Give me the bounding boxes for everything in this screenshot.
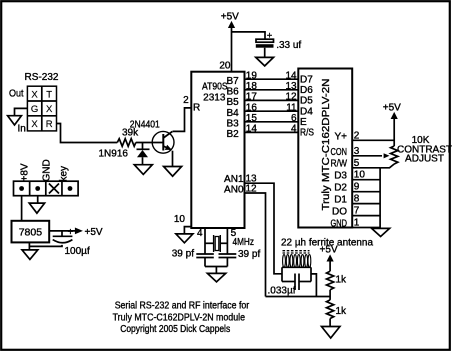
power +5V arrow bottom right [320, 245, 338, 272]
title text [113, 301, 250, 335]
ground (1k divider) [322, 327, 340, 339]
svg-text:1k: 1k [336, 306, 348, 317]
wire 7805 to ground [28, 242, 30, 250]
svg-text:12: 12 [246, 183, 258, 194]
wire pin4 down [204, 228, 206, 254]
ground (power connector) [29, 203, 44, 213]
pin numbers LCD right [354, 130, 366, 228]
ground (LCD bus) [372, 228, 390, 236]
svg-text:B4: B4 [226, 108, 239, 119]
pin numbers left bus [246, 70, 258, 134]
svg-text:1k: 1k [336, 275, 348, 286]
wire pin10 to ground [184, 227, 191, 234]
resistor R1 39k [117, 128, 139, 147]
svg-text:1N916: 1N916 [99, 148, 129, 159]
svg-text:R: R [193, 103, 200, 114]
wire tank right rail [310, 267, 312, 281]
ground (crystal caps) [207, 273, 225, 282]
wire R3 to ground [329, 319, 331, 327]
svg-text:19: 19 [246, 70, 258, 81]
svg-text:X: X [31, 89, 38, 100]
capacitor C1 .33 uf [256, 30, 302, 57]
connector J2 power [14, 159, 79, 195]
svg-text:18: 18 [246, 81, 258, 92]
svg-text:14: 14 [285, 70, 297, 81]
wire pin5 down [226, 228, 228, 254]
svg-text:GND: GND [331, 219, 348, 230]
svg-text:+: + [267, 30, 273, 41]
svg-text:ADJUST: ADJUST [405, 154, 444, 165]
svg-text:D5: D5 [300, 96, 313, 107]
svg-text:AT90S: AT90S [202, 82, 228, 93]
svg-text:key: key [59, 166, 70, 182]
svg-text:D6: D6 [300, 85, 313, 96]
capacitor C3 39pf right [219, 249, 261, 260]
svg-text:R/S: R/S [300, 128, 314, 139]
svg-text:B7: B7 [226, 76, 239, 87]
svg-text:39 pf: 39 pf [172, 248, 194, 259]
wire G to ground [15, 108, 28, 115]
svg-text:4MHz: 4MHz [233, 237, 255, 248]
svg-text:+8V: +8V [20, 163, 31, 181]
wire GND [352, 227, 380, 229]
svg-text:D7: D7 [300, 74, 313, 85]
svg-text:GND: GND [42, 159, 53, 181]
svg-text:D1: D1 [334, 195, 347, 206]
wire bottom rail [266, 296, 331, 298]
wire R out [57, 124, 118, 143]
svg-text:G: G [31, 104, 38, 115]
wire caps to ground [204, 258, 206, 267]
regulator U3 7805 [12, 221, 50, 243]
svg-text:B3: B3 [226, 119, 239, 130]
wire D0 [352, 215, 380, 217]
svg-text:.33 uf: .33 uf [276, 40, 301, 51]
svg-text:In: In [18, 124, 26, 135]
svg-text:AN0: AN0 [224, 185, 244, 196]
svg-text:4: 4 [291, 124, 297, 135]
svg-text:2313: 2313 [203, 92, 226, 103]
svg-text:11: 11 [286, 102, 297, 113]
wire +5V branch to cap [232, 32, 266, 39]
svg-text:Copyright 2005 Dick Cappels: Copyright 2005 Dick Cappels [120, 324, 230, 335]
wire emitter down [172, 151, 174, 167]
wire tank to bottom rail [311, 274, 316, 297]
wire tank left rail [281, 267, 283, 281]
ground (diode) [134, 165, 152, 175]
svg-text:R: R [46, 119, 53, 130]
wire collector to pin2 [173, 108, 192, 131]
wire Y+ to +5V [352, 139, 394, 141]
connector J1 RS-232 [9, 72, 59, 135]
svg-text:Serial RS-232 and RF interface: Serial RS-232 and RF interface for [115, 301, 250, 312]
svg-text:D4: D4 [300, 106, 313, 117]
crystal Y1 4MHz [205, 235, 254, 252]
resistor R3 1k [327, 300, 348, 319]
svg-text:13: 13 [285, 81, 297, 92]
wire AN0 [245, 193, 266, 297]
svg-text:17: 17 [246, 92, 258, 103]
svg-text:Truly MTC-C162DPLV-2N: Truly MTC-C162DPLV-2N [320, 79, 332, 211]
wire GND pin stub [37, 196, 39, 203]
svg-text:15: 15 [246, 113, 258, 124]
svg-text:B2: B2 [226, 129, 239, 140]
svg-text:+5V: +5V [320, 245, 338, 256]
ground (7805) [22, 250, 38, 260]
svg-text:DO: DO [332, 207, 347, 218]
wire +8V to 7805 [21, 196, 23, 221]
potentiometer VR1 10K [352, 135, 452, 168]
diode D1 1N916 [99, 148, 150, 164]
svg-text:E: E [300, 117, 307, 128]
IC U1 AT90S2313 [174, 61, 245, 239]
power +5V arrow right [383, 102, 401, 146]
svg-text:6: 6 [291, 113, 297, 124]
svg-text:D3: D3 [334, 171, 347, 182]
svg-text:14: 14 [246, 124, 258, 135]
bus wire B5-D5 [245, 99, 299, 101]
pin numbers right bus [285, 70, 297, 134]
IC U2 LCD module [298, 69, 352, 230]
svg-text:Out: Out [9, 89, 24, 100]
resistor R2 1k [327, 271, 348, 290]
bus wire B6-D6 [245, 89, 299, 91]
svg-text:2N4401: 2N4401 [130, 119, 160, 130]
ground (RS-232 In) [8, 116, 22, 125]
svg-text:+: + [68, 227, 74, 238]
transistor Q1 2N4401 [130, 119, 174, 153]
bus wire B4-D4 [245, 110, 299, 112]
svg-text:Truly MTC-C162DPLV-2N module: Truly MTC-C162DPLV-2N module [113, 312, 246, 323]
svg-text:100µf: 100µf [65, 246, 90, 257]
svg-text:Y+: Y+ [334, 132, 347, 143]
svg-text:20: 20 [219, 61, 231, 72]
wire gnd bus vertical [379, 168, 381, 229]
node base [142, 143, 144, 150]
bus wire B3-E [245, 121, 299, 123]
ground (emitter) [164, 167, 182, 177]
svg-text:RS-232: RS-232 [25, 72, 59, 83]
wire R2 to junction [329, 290, 331, 300]
bus wire B2-R/S [245, 131, 299, 133]
svg-text:+5V: +5V [221, 11, 239, 22]
power +5V arrow top [221, 11, 239, 71]
svg-text:D2: D2 [334, 183, 347, 194]
capacitor C4 .033uf [268, 274, 312, 297]
wire 7805 output [49, 230, 75, 232]
svg-text:B6: B6 [226, 87, 239, 98]
svg-text:B5: B5 [226, 97, 239, 108]
svg-text:4: 4 [197, 228, 203, 239]
antenna L1 22uh ferrite [281, 238, 373, 268]
wire D1 [352, 203, 380, 205]
wire AN1 [245, 183, 283, 274]
capacitor C5 100uf [29, 227, 90, 257]
svg-text:X: X [46, 104, 53, 115]
capacitor C2 39pf left [172, 248, 214, 259]
svg-text:10: 10 [174, 214, 186, 225]
ground (under .33uf) [256, 57, 274, 66]
wire D3 [352, 179, 380, 181]
svg-text:16: 16 [246, 102, 258, 113]
svg-text:T: T [46, 89, 52, 100]
wire resistor to base node [136, 142, 164, 144]
wire D2 [352, 191, 380, 193]
svg-text:X: X [31, 119, 38, 130]
svg-text:39 pf: 39 pf [238, 249, 260, 260]
svg-text:AN1: AN1 [224, 174, 244, 185]
wire R/W [352, 167, 380, 169]
svg-text:12: 12 [285, 92, 297, 103]
svg-text:R/W: R/W [331, 159, 348, 170]
bus wire B7-D7 [245, 78, 299, 80]
svg-text:+5V: +5V [383, 102, 401, 113]
svg-text:.033µf: .033µf [268, 286, 296, 297]
svg-text:7805: 7805 [19, 227, 43, 239]
ground (pin10) [176, 234, 193, 243]
svg-text:2: 2 [183, 95, 189, 106]
svg-text:+5V: +5V [85, 227, 103, 238]
svg-text:CON: CON [331, 147, 348, 158]
